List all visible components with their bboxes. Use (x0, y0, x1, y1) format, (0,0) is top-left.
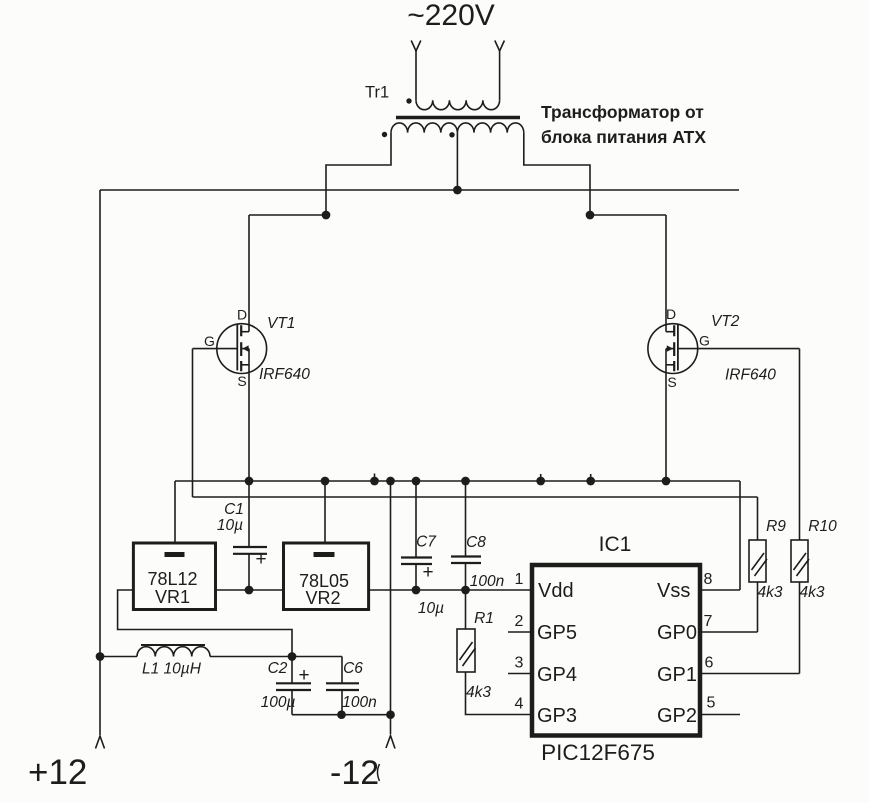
transistor VT2 circle (648, 324, 698, 374)
node junction VT2 drain branch (586, 211, 595, 220)
svg-text:C2: C2 (268, 660, 288, 677)
wire -12 bottom link (292, 714, 391, 716)
wire VT1 gate (193, 348, 238, 350)
capacitor C1 bottom lead (248, 554, 250, 590)
node junction C7 on bus1 (412, 477, 421, 486)
wire stub C (590, 474, 592, 481)
svg-text:Vss: Vss (657, 580, 690, 602)
node junction C1 bottom (245, 586, 254, 595)
svg-text:GP2: GP2 (657, 705, 697, 727)
svg-text:L1 10µH: L1 10µH (142, 661, 202, 678)
node junction VT1 source on bus1 (245, 477, 254, 486)
svg-text:~220V: ~220V (407, 0, 495, 32)
inductor L1 core line (141, 644, 205, 646)
wire to VT1 drain (249, 214, 326, 216)
wire pin6 GP1 to R10 (701, 673, 800, 675)
transistor VT2 gate bar (677, 324, 679, 370)
transistor VT2 source bar (666, 364, 674, 366)
node junction -12 drop on bus1 (386, 477, 395, 486)
node primary right arrow (495, 41, 505, 52)
wire primary right lead (499, 51, 501, 101)
svg-text:Tr1: Tr1 (365, 84, 389, 102)
node primary left arrow (411, 41, 421, 52)
IC U1 box (532, 565, 700, 736)
svg-text:4k3: 4k3 (466, 684, 491, 701)
svg-text:4: 4 (515, 696, 524, 713)
wire VR2 top feed (324, 481, 326, 543)
svg-text:+: + (422, 562, 433, 583)
wire C6 top lead (292, 657, 342, 684)
wire pin7 GP0 to R9 (701, 631, 758, 633)
svg-text:R1: R1 (474, 610, 494, 627)
resistor R1 bottom lead to GP3 (466, 672, 533, 715)
transistor VT2 substrate arrow (667, 345, 673, 351)
wire L1 right lead (210, 656, 292, 658)
node junction C6 bottom (337, 710, 346, 719)
node junction stub C on bus1 (586, 477, 595, 486)
resistor R1 top lead (465, 590, 467, 629)
node junction L1 right (288, 652, 297, 661)
svg-text:GP5: GP5 (537, 622, 577, 644)
svg-text:+12: +12 (28, 753, 87, 792)
capacitor C6 bottom lead (341, 690, 343, 715)
svg-text:C7: C7 (416, 534, 437, 551)
svg-text:10µ: 10µ (217, 517, 243, 534)
wire pin2 GP5 stub (508, 631, 532, 633)
svg-text:GP3: GP3 (537, 705, 577, 727)
svg-text:GP1: GP1 (657, 664, 697, 686)
resistor R9 body (749, 540, 766, 582)
wire C2 top lead (291, 657, 293, 684)
wire C8 top lead (465, 481, 467, 557)
svg-text:PIC12F675: PIC12F675 (541, 740, 655, 765)
wire VT1 gate drop to bus2 (192, 349, 194, 497)
transistor VT1 substrate arrow (242, 345, 248, 351)
svg-text:78L12: 78L12 (147, 569, 197, 589)
regulator VR2 box (284, 543, 369, 610)
wire to VT2 drain (590, 214, 666, 216)
svg-text:+: + (298, 665, 309, 686)
transformer polarity dot secondary center (449, 132, 454, 137)
svg-text:IC1: IC1 (599, 533, 632, 556)
node junction -12 node (386, 710, 395, 719)
node -12 output arrow (386, 736, 395, 749)
resistor R10 body (791, 540, 808, 582)
capacitor C8 bottom lead (465, 563, 467, 590)
node junction C8 on bus1 (461, 477, 470, 486)
transistor VT2 substrate bar (666, 348, 674, 350)
wire pin5 GP2 stub (701, 714, 740, 716)
node junction stub A on bus1 (370, 477, 379, 486)
svg-text:4k3: 4k3 (800, 584, 825, 601)
capacitor C7 plates (401, 558, 432, 565)
svg-text:VR2: VR2 (305, 588, 340, 608)
svg-text:D: D (666, 306, 676, 322)
svg-text:+: + (255, 549, 266, 570)
wire VT2 gate drop to R10 (799, 349, 801, 540)
transistor VT1 gate bar (236, 324, 238, 370)
svg-text:6: 6 (705, 655, 714, 672)
svg-text:VR1: VR1 (155, 587, 190, 607)
node junction C8 bottom Vdd (461, 586, 470, 595)
regulator VR1 box (133, 543, 215, 610)
node junction left rail L1 (96, 652, 105, 661)
svg-text:блока питания ATX: блока питания ATX (541, 127, 706, 147)
inductor L1 winding (137, 647, 210, 657)
transistor VT1 source bar (241, 364, 249, 366)
svg-text:C1: C1 (224, 501, 244, 518)
wire secondary right terminal down (524, 133, 590, 215)
capacitor C1 plates (233, 547, 267, 554)
resistor R10 hatch (794, 553, 810, 576)
wire VT1 source lead to bus (248, 349, 250, 481)
wire VT2 drain lead (665, 215, 667, 332)
svg-text:-12: -12 (330, 754, 379, 792)
node junction center tap on rail (453, 186, 462, 195)
transformer Tr1 secondary winding (391, 123, 524, 133)
transformer polarity dot secondary left (382, 132, 387, 137)
wire stub A (374, 474, 376, 482)
svg-text:G: G (699, 333, 710, 349)
svg-text:S: S (237, 373, 246, 389)
transistor VT1 substrate bar (241, 348, 249, 350)
svg-text:VT2: VT2 (711, 313, 740, 330)
resistor R9 hatch (752, 553, 768, 576)
transistor VT1 channel segments (240, 325, 242, 371)
wire secondary left terminal down (326, 133, 391, 215)
wire VT1 drain lead (248, 215, 250, 332)
svg-text:GP4: GP4 (537, 664, 577, 686)
wire C7 top lead (415, 481, 417, 558)
transformer polarity dot primary (406, 98, 411, 103)
svg-text:1: 1 (515, 571, 524, 588)
wire bus1 (175, 480, 740, 482)
svg-text:Трансформатор от: Трансформатор от (541, 102, 704, 122)
wire bus2 drop to R9 (757, 497, 759, 540)
svg-text:7: 7 (704, 613, 713, 630)
svg-text:5: 5 (707, 695, 716, 712)
svg-text:10µ: 10µ (418, 600, 444, 617)
resistor R9 bottom lead (757, 582, 759, 632)
svg-text:IRF640: IRF640 (725, 367, 776, 384)
capacitor C6 plates (326, 683, 359, 690)
node +12 output arrow (96, 736, 105, 749)
svg-text:3: 3 (515, 655, 524, 672)
node junction stub B on bus1 (536, 477, 545, 486)
transistor VT2 channel segments (673, 325, 675, 371)
svg-text:GP0: GP0 (657, 622, 697, 644)
svg-text:2: 2 (515, 613, 524, 630)
svg-text:100n: 100n (470, 573, 504, 590)
node junction VT1 drain branch (322, 211, 331, 220)
svg-text:R10: R10 (808, 518, 837, 535)
wire pin8 Vss (701, 589, 740, 591)
transistor VT2 drain bar (666, 331, 674, 333)
wire Vdd feed VR2 to IC (369, 589, 532, 591)
wire stub B (540, 474, 542, 481)
svg-text:VT1: VT1 (267, 315, 295, 332)
capacitor C1 top lead (248, 481, 250, 547)
transformer Tr1 primary winding (416, 100, 500, 110)
wire bus1 right drop to Vss (739, 481, 741, 590)
transistor VT1 drain bar (241, 331, 249, 333)
svg-text:S: S (667, 374, 676, 390)
regulator VR2 tab (314, 552, 335, 557)
resistor R10 bottom lead (799, 582, 801, 674)
svg-text:IRF640: IRF640 (259, 366, 310, 383)
svg-text:4k3: 4k3 (758, 584, 783, 601)
node junction VR2 top on bus1 (321, 477, 330, 486)
wire center tap (456, 133, 458, 190)
wire pin3 GP4 stub (508, 673, 532, 675)
svg-text:C8: C8 (466, 534, 486, 551)
resistor R1 hatch (460, 642, 476, 666)
regulator VR1 tab (165, 552, 185, 557)
capacitor C2 bottom lead (291, 690, 293, 715)
transformer Tr1 core (396, 116, 520, 120)
svg-text:8: 8 (704, 571, 713, 588)
wire bus1 left drop to VR1 (174, 481, 176, 543)
svg-text:100n: 100n (342, 694, 376, 711)
node junction VT2 source on bus1 (662, 477, 671, 486)
svg-text:G: G (204, 333, 215, 349)
wire primary left lead (415, 51, 417, 101)
svg-text:D: D (237, 307, 247, 323)
svg-text:100µ: 100µ (261, 694, 296, 711)
wire left +12 drop (99, 190, 101, 735)
wire VR1 output left (118, 590, 292, 657)
wire L1 left lead (100, 656, 137, 658)
capacitor C8 plates (451, 557, 481, 564)
wire -12 drop from bus1 (390, 481, 392, 734)
wire VT2 gate (678, 348, 800, 350)
wire VT2 source lead to bus (665, 349, 667, 481)
wire top rail (100, 189, 739, 191)
svg-text:Vdd: Vdd (538, 580, 574, 602)
node -12 partial glyph (378, 764, 380, 781)
svg-text:R9: R9 (766, 518, 786, 535)
resistor R1 body (457, 629, 475, 672)
wire VR1 to VR2 link (216, 589, 284, 591)
capacitor C2 plates (276, 683, 311, 690)
transistor VT1 circle (217, 324, 267, 374)
wire bus2 (193, 496, 758, 498)
node junction C7 bottom (412, 586, 421, 595)
capacitor C7 bottom lead (415, 564, 417, 590)
svg-text:C6: C6 (343, 660, 363, 677)
